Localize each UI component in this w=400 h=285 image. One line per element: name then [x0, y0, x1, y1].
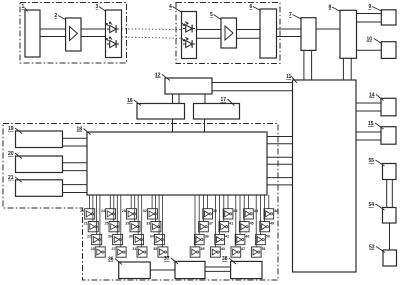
svg-text:29: 29 [125, 222, 129, 226]
svg-text:33: 33 [146, 222, 150, 226]
svg-text:50: 50 [266, 235, 270, 239]
svg-text:28: 28 [122, 209, 126, 213]
driver cell 44 (right group r1c3) [244, 209, 258, 219]
wire 18-11 #4 [267, 163, 293, 165]
label 6 [250, 4, 261, 11]
label 21 [8, 175, 22, 183]
svg-text:38: 38 [205, 235, 209, 239]
wire 19-18 upper [63, 137, 88, 139]
wire 4-5 upper [197, 29, 222, 31]
svg-text:10: 10 [367, 37, 373, 43]
block 8 [340, 10, 357, 58]
wire 18-cell21 vertical [92, 195, 94, 222]
label 10 [367, 37, 382, 44]
svg-text:37: 37 [209, 222, 213, 226]
label 53 [369, 245, 385, 253]
driver cell 48 (right group r1c4) [264, 209, 278, 219]
wire 1-2 upper [40, 28, 66, 30]
wire 37-38 lower [205, 270, 231, 272]
driver cell 20 (left group r1c1) [80, 209, 95, 219]
driver cell 36 (right group r1c1) [203, 209, 217, 219]
svg-text:18: 18 [77, 127, 83, 133]
wire 18-11 #1 [267, 136, 293, 138]
label 9 [369, 4, 382, 11]
svg-text:16: 16 [127, 98, 133, 104]
block 9 [381, 10, 396, 25]
wire 18-cell35 vertical [162, 195, 164, 247]
block 38 [231, 261, 262, 278]
driver cell 22 (left group r3c1) [87, 234, 102, 244]
svg-text:2: 2 [55, 13, 58, 19]
wire 8-11 left vertical [342, 58, 344, 80]
amplifier block 5 [221, 18, 237, 48]
label 12 [155, 73, 170, 81]
wire 11-14 upper [356, 102, 381, 104]
wire 18-cell51 vertical [255, 195, 257, 247]
svg-text:21: 21 [84, 222, 88, 226]
wire 18-cell25 vertical [113, 195, 115, 222]
wire 18-cell47 vertical [235, 195, 237, 247]
svg-text:6: 6 [250, 4, 253, 10]
svg-text:45: 45 [250, 222, 254, 226]
driver cell 30 (left group r3c3) [129, 234, 144, 244]
wire 18-cell26 vertical [116, 195, 118, 234]
svg-text:51: 51 [262, 247, 266, 251]
svg-text:55: 55 [369, 158, 375, 164]
wire 11-14 lower [356, 110, 381, 112]
wire 18-cell44 vertical [247, 195, 249, 209]
svg-text:39: 39 [201, 247, 205, 251]
input block 21 [16, 180, 63, 197]
driver cell 33 (left group r2c4) [146, 222, 161, 232]
svg-text:43: 43 [221, 247, 225, 251]
svg-text:12: 12 [155, 73, 161, 79]
svg-text:4: 4 [169, 4, 172, 10]
wire 7-8 [316, 28, 340, 30]
driver cell 31 (left group r4c3) [132, 247, 147, 257]
wire 7-11 left vertical [303, 50, 305, 80]
svg-text:11: 11 [286, 74, 292, 80]
svg-text:5: 5 [210, 12, 213, 18]
wire 8-10 [357, 49, 382, 51]
label 38 [222, 256, 236, 264]
driver cell 25 (left group r2c2) [105, 222, 120, 232]
svg-text:32: 32 [143, 209, 147, 213]
block 16 [137, 104, 185, 120]
wire 18-cell33 vertical [155, 195, 157, 222]
wire 36-37 [150, 269, 175, 271]
driver cell 24 (left group r1c2) [101, 209, 116, 219]
svg-text:3: 3 [96, 4, 99, 10]
driver cell 40 (right group r1c2) [223, 209, 237, 219]
block 12 [165, 78, 212, 94]
svg-text:1: 1 [22, 4, 25, 10]
block 15 [381, 127, 396, 145]
block 10 [381, 42, 396, 59]
wire 18-cell36 vertical [207, 195, 209, 209]
wire 2-3 lower [81, 36, 106, 38]
wire 12-16 right vertical [178, 94, 180, 104]
driver cell 42 (right group r3c2) [215, 234, 229, 244]
transmitter enclosure (dash-dot box) [20, 3, 127, 64]
wire 18-cell28 vertical [130, 195, 132, 209]
label 17 [221, 97, 235, 106]
label 20 [8, 151, 22, 159]
block 7 [301, 18, 316, 51]
label 14 [369, 93, 384, 101]
label 19 [8, 126, 22, 134]
svg-text:7: 7 [289, 12, 292, 18]
block 14 [381, 98, 396, 116]
wire 20-18 upper [63, 162, 88, 164]
driver cell 28 (left group r1c3) [122, 209, 137, 219]
wire 6-7 upper [277, 28, 302, 30]
wire 18-cell39 vertical [194, 195, 196, 247]
driver cell 29 (left group r2c3) [125, 222, 140, 232]
receiver enclosure (dash-dot box) [176, 3, 280, 64]
wire 18-cell31 vertical [141, 195, 143, 247]
label 8 [329, 5, 341, 12]
svg-text:37: 37 [164, 256, 170, 262]
wire 18-cell29 vertical [134, 195, 136, 222]
wire 18-11 #2 [267, 143, 293, 145]
wire 18-cell27 vertical [120, 195, 122, 247]
svg-text:48: 48 [274, 209, 278, 213]
wire 21-18 upper [63, 184, 88, 186]
light beam lower (dotted) [122, 37, 182, 38]
wire 18-cell43 vertical [214, 195, 216, 247]
svg-text:20: 20 [8, 151, 14, 157]
input block 19 [16, 131, 63, 148]
wire 21-18 lower [63, 192, 88, 194]
wire 1-2 lower [40, 36, 66, 38]
LED block 3 [106, 10, 122, 58]
LED D2 [106, 37, 119, 48]
driver cell 38 (right group r3c1) [194, 234, 208, 244]
svg-text:31: 31 [132, 247, 136, 251]
svg-text:23: 23 [91, 247, 95, 251]
driver cell 41 (right group r2c2) [219, 222, 233, 232]
svg-text:14: 14 [369, 93, 375, 99]
svg-text:26: 26 [108, 235, 112, 239]
wire 4-5 lower [197, 37, 222, 39]
wire 18-cell20 vertical [88, 195, 90, 209]
label 1 [22, 4, 28, 12]
label 54 [369, 202, 385, 210]
wire 12-11 lower [212, 90, 293, 92]
wire 20-18 lower [63, 170, 88, 172]
svg-text:35: 35 [153, 247, 157, 251]
svg-text:54: 54 [369, 202, 375, 208]
wire 18-cell48 vertical [268, 195, 270, 209]
light beam upper (dotted) [122, 28, 182, 31]
svg-text:27: 27 [112, 247, 116, 251]
driver cell 27 (left group r4c2) [112, 247, 127, 257]
svg-text:46: 46 [246, 235, 250, 239]
svg-text:49: 49 [270, 222, 274, 226]
driver cell 37 (right group r2c1) [199, 222, 213, 232]
control block 11 [293, 80, 357, 272]
driver cell 49 (right group r2c4) [260, 222, 274, 232]
driver cell 32 (left group r1c4) [143, 209, 158, 219]
wire 19-18 lower [63, 145, 88, 147]
wire 18-cell45 vertical [243, 195, 245, 222]
label 16 [127, 98, 141, 106]
input block 20 [16, 156, 63, 173]
driver cell 35 (left group r4c4) [153, 247, 168, 257]
label 36 [108, 257, 122, 265]
wire 18-cell23 vertical [99, 195, 101, 247]
amplifier block 2 [66, 18, 81, 51]
label 37 [164, 256, 178, 264]
wire 6-7 lower [277, 36, 302, 38]
block 6 [260, 9, 277, 58]
wire 8-9 lower [357, 21, 382, 23]
svg-text:41: 41 [229, 222, 233, 226]
block 36 [119, 262, 151, 279]
svg-text:20: 20 [80, 209, 84, 213]
driver cell 21 (left group r2c1) [84, 222, 99, 232]
wire 18-cell24 vertical [109, 195, 111, 209]
svg-text:25: 25 [105, 222, 109, 226]
label 5 [210, 12, 221, 20]
wire 18-cell38 vertical [198, 195, 200, 234]
wire 18-cell49 vertical [264, 195, 266, 222]
svg-text:17: 17 [221, 97, 227, 103]
svg-text:9: 9 [369, 4, 372, 10]
block 53 [383, 250, 397, 266]
wire 18-cell37 vertical [202, 195, 204, 222]
svg-text:22: 22 [87, 235, 91, 239]
driver cell 39 (right group r4c1) [190, 247, 204, 257]
wire 8-11 right vertical [350, 58, 352, 80]
wire 2-3 upper [81, 28, 106, 30]
photodiode D4 [182, 37, 195, 48]
svg-text:21: 21 [8, 175, 14, 181]
svg-text:53: 53 [369, 245, 375, 251]
block 1 (signal source) [25, 10, 40, 57]
wire 18-cell50 vertical [259, 195, 261, 234]
wire 18-cell30 vertical [137, 195, 139, 234]
driver cell 23 (left group r4c1) [91, 247, 106, 257]
block 17 [194, 104, 240, 120]
wire 18-cell34 vertical [158, 195, 160, 234]
driver cell 26 (left group r3c2) [108, 234, 123, 244]
wire 17-18 vertical [204, 119, 206, 132]
wire 16-18 vertical [172, 119, 174, 132]
label 3 [96, 4, 107, 12]
driver cell 47 (right group r4c3) [231, 247, 245, 257]
svg-text:8: 8 [329, 5, 332, 11]
wire 18-11 #5 [267, 177, 293, 179]
svg-text:24: 24 [101, 209, 105, 213]
wire 8-9 upper [357, 13, 382, 15]
driver cell 50 (right group r3c4) [256, 234, 270, 244]
svg-text:36: 36 [108, 257, 114, 263]
photodiode D3 [182, 22, 195, 33]
label 15 [368, 121, 384, 129]
label 4 [169, 4, 182, 13]
wire 55-54 right vertical [391, 180, 393, 208]
wire 54-53 vertical [389, 223, 391, 250]
wire 18-cell42 vertical [219, 195, 221, 234]
wire 5-6 upper [237, 29, 261, 31]
wire 18-cell32 vertical [151, 195, 153, 209]
block 37 [175, 261, 205, 278]
svg-text:15: 15 [368, 121, 374, 127]
driver cell 51 (right group r4c4) [251, 247, 265, 257]
wire 11-15 upper [356, 131, 381, 133]
wire 18-11 #3 [267, 156, 293, 158]
driver cell 45 (right group r2c3) [239, 222, 253, 232]
label 2 [55, 13, 66, 20]
svg-text:34: 34 [150, 235, 154, 239]
wire 12-16 left vertical [172, 94, 174, 104]
svg-text:42: 42 [225, 235, 229, 239]
wire 18-cell41 vertical [223, 195, 225, 222]
label 7 [289, 12, 301, 19]
photodiode block 4 [182, 12, 197, 59]
wire 7-11 right vertical [311, 50, 313, 80]
driver cell 43 (right group r4c2) [211, 247, 225, 257]
block 55 [383, 164, 397, 180]
driver cell 34 (left group r3c4) [150, 234, 165, 244]
svg-text:30: 30 [129, 235, 133, 239]
svg-text:47: 47 [241, 247, 245, 251]
wire 18-cell46 vertical [239, 195, 241, 234]
output unit enclosure (dash-dot boundary) [3, 124, 278, 281]
driver cell 46 (right group r3c3) [235, 234, 249, 244]
label 55 [369, 158, 385, 166]
label 18 [77, 127, 91, 135]
wire 11-15 lower [356, 139, 381, 141]
wire 18-11 #6 [267, 184, 293, 186]
wire 12-11 upper [212, 82, 293, 84]
wire 5-6 lower [237, 37, 261, 39]
wire 18-cell40 vertical [227, 195, 229, 209]
wire 55-54 left vertical [386, 180, 388, 208]
svg-text:19: 19 [8, 126, 14, 132]
wire 37-38 upper [205, 266, 231, 268]
wire 12-17 vertical [204, 94, 206, 104]
label 11 [286, 74, 297, 83]
wire 18-cell22 vertical [95, 195, 97, 234]
block 54 [383, 208, 397, 224]
LED D1 [106, 22, 119, 33]
register block 18 [87, 132, 267, 195]
svg-text:38: 38 [222, 256, 228, 262]
